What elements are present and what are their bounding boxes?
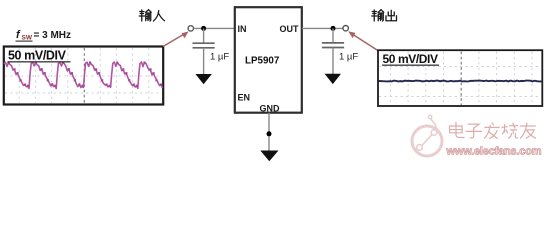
label 输入 (input)	[139, 10, 164, 21]
junction input node	[201, 26, 206, 31]
wire GND pin down	[268, 113, 270, 151]
ground (IC GND)	[260, 151, 278, 162]
电	[450, 122, 465, 137]
regulator U1 LP5907 body	[235, 7, 302, 113]
node output terminal	[343, 26, 348, 31]
ground (input cap)	[195, 74, 211, 84]
wire junction to capacitor C2	[332, 28, 334, 42]
ripple waveform	[4, 62, 163, 89]
友	[520, 123, 535, 138]
子	[466, 124, 481, 138]
arrow from input scope to input node	[163, 31, 189, 46]
svg-text:EN: EN	[238, 93, 251, 103]
svg-text:SW: SW	[22, 34, 33, 41]
svg-text:IN: IN	[238, 24, 247, 34]
svg-text:f: f	[16, 29, 21, 41]
wire junction to capacitor C1	[203, 28, 205, 43]
wire capacitor C1 to ground	[203, 48, 205, 75]
发	[484, 123, 499, 139]
svg-text:1 µF: 1 µF	[339, 52, 358, 63]
grid lines	[379, 52, 542, 106]
svg-text:50 mV/DIV: 50 mV/DIV	[8, 49, 67, 63]
waveform markers	[7, 62, 162, 87]
svg-text:OUT: OUT	[280, 24, 300, 34]
wire input terminal to IN pin	[194, 27, 234, 29]
watermark logo (elecfans)	[412, 115, 442, 156]
label 输出 (output)	[372, 10, 397, 21]
output scope screenshot frame	[378, 50, 542, 106]
wire OUT pin to output terminal	[302, 27, 343, 29]
svg-text:50 mV/DIV: 50 mV/DIV	[383, 52, 438, 66]
center graticule	[460, 52, 462, 106]
wire capacitor C2 to ground	[332, 48, 334, 75]
入 glyph	[154, 11, 165, 22]
svg-text:1 µF: 1 µF	[210, 52, 229, 63]
svg-text:www.elecfans.com: www.elecfans.com	[446, 146, 542, 158]
输 glyph	[139, 10, 151, 21]
center graticule	[83, 48, 85, 104]
arrow from output scope to output node	[348, 31, 378, 50]
flat output trace	[379, 80, 542, 83]
出 glyph	[386, 10, 397, 21]
watermark text dianzifashaoyou	[450, 122, 536, 138]
grid lines	[5, 48, 162, 104]
输 glyph	[372, 10, 384, 21]
annotation f_SW = 3 MHz	[16, 29, 72, 42]
input scope screenshot frame	[4, 47, 163, 105]
junction on ground wire	[267, 131, 272, 136]
junction output node	[331, 26, 336, 31]
capacitor C2 plates	[322, 43, 344, 48]
svg-text:= 3 MHz: = 3 MHz	[34, 30, 72, 41]
ground (output cap)	[325, 74, 341, 84]
capacitor C1 plates	[193, 43, 215, 48]
svg-text:LP5907: LP5907	[245, 56, 280, 67]
node input terminal	[188, 26, 193, 31]
烧	[502, 123, 517, 138]
svg-text:GND: GND	[260, 104, 281, 114]
